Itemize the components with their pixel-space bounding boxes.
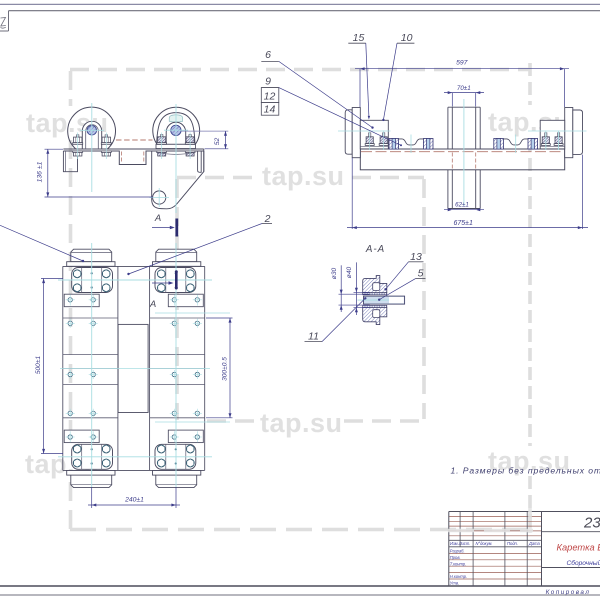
dimension 52 xyxy=(181,130,228,132)
leader into left cap xyxy=(0,225,83,261)
side view right flange plate xyxy=(565,108,573,158)
front view carriage plate xyxy=(63,148,203,150)
svg-text:70±1: 70±1 xyxy=(457,85,471,92)
dimension 675±1 xyxy=(351,158,353,229)
watermark overlay dashes over title block xyxy=(448,508,533,533)
wheel W2 yoke tower xyxy=(166,122,186,144)
svg-text:597: 597 xyxy=(456,60,468,67)
svg-text:A: A xyxy=(149,299,156,310)
wheel W2 pedestal xyxy=(156,144,196,148)
wheel W2 bolts xyxy=(161,135,163,137)
plan view mid plate bolts xyxy=(68,321,72,325)
dimension 500±1 xyxy=(41,278,63,280)
svg-text:N°докум.: N°докум. xyxy=(476,541,493,546)
svg-text:Сборочный ч: Сборочный ч xyxy=(567,559,600,567)
svg-text:Изм.Лист.: Изм.Лист. xyxy=(450,541,470,546)
dimension 136±1 xyxy=(45,148,64,150)
side view left axle end xyxy=(345,110,352,154)
svg-text:Пров.: Пров. xyxy=(450,555,461,560)
section pin xyxy=(364,296,405,304)
section notches white xyxy=(373,283,380,291)
svg-text:ø30: ø30 xyxy=(331,267,338,279)
svg-text:240±1: 240±1 xyxy=(124,497,144,504)
section washer strips xyxy=(363,293,387,295)
dimension 70±1 xyxy=(451,93,453,107)
sheet frame top lines xyxy=(0,3,600,5)
svg-text:500±1: 500±1 xyxy=(35,356,42,375)
front view centerlines cyan xyxy=(91,103,93,192)
wheel W1 bolts xyxy=(77,135,79,137)
svg-text:Т.контр.: Т.контр. xyxy=(450,561,467,566)
side view left flange plate xyxy=(352,108,360,158)
svg-text:14: 14 xyxy=(264,104,276,116)
watermark dashed frame inner xyxy=(177,178,424,422)
svg-text:Дата: Дата xyxy=(528,541,541,546)
front view rail hidden line red xyxy=(116,139,153,141)
svg-text:5: 5 xyxy=(418,268,424,280)
side view left bracket with bolts xyxy=(360,120,388,149)
plan view center connector plate xyxy=(118,324,148,412)
svg-text:9: 9 xyxy=(265,76,271,88)
svg-text:Разраб.: Разраб. xyxy=(450,549,465,554)
wheel W1 front-left circle xyxy=(68,107,116,149)
wheel W2 face plate xyxy=(157,113,195,149)
svg-text:Утв.: Утв. xyxy=(450,581,459,586)
front view left flange bracket xyxy=(63,151,77,172)
front view right end and flange xyxy=(203,149,205,172)
watermark dashed frame outer xyxy=(70,63,533,533)
svg-text:11: 11 xyxy=(308,331,319,343)
side view wheel left pair section xyxy=(389,139,399,150)
svg-text:23.05.01: 23.05.01 xyxy=(583,515,600,532)
wheel W1 axle xyxy=(87,126,97,136)
svg-text:Копировал: Копировал xyxy=(546,589,591,596)
plan view hex bolts and small bolts xyxy=(73,270,81,278)
wheel W2 front-right circle xyxy=(153,107,200,149)
dimension 300±0.5 xyxy=(206,317,233,319)
dimension ø40 xyxy=(354,291,370,293)
dimension 597 xyxy=(359,69,361,107)
svg-text:52: 52 xyxy=(214,138,221,146)
svg-text:300±0.5: 300±0.5 xyxy=(221,357,228,381)
svg-text:15: 15 xyxy=(353,32,365,44)
svg-text:A-A: A-A xyxy=(365,244,385,255)
wheel W1 yoke xyxy=(82,121,101,149)
svg-text:Н.контр.: Н.контр. xyxy=(450,574,467,579)
plan view rails xyxy=(62,266,64,470)
side view wheel right pair section xyxy=(494,139,504,150)
dimension 62±1 xyxy=(444,209,484,211)
svg-text:136 ±1: 136 ±1 xyxy=(36,161,43,182)
wheel W2 axle xyxy=(171,125,181,135)
side view center ear plate xyxy=(448,106,480,108)
side view centerlines cyan xyxy=(463,99,465,206)
title block grid xyxy=(449,515,542,517)
svg-text:A: A xyxy=(154,213,161,224)
side view beam xyxy=(360,149,564,170)
front view bracket hole xyxy=(153,191,166,204)
side view right bracket with bolts xyxy=(540,120,565,149)
svg-text:675±1: 675±1 xyxy=(453,220,473,227)
dimension 240±1 xyxy=(91,487,93,508)
svg-text:Подп.: Подп. xyxy=(507,541,518,546)
plan view mid plates edges xyxy=(63,317,118,319)
svg-text:12: 12 xyxy=(264,90,276,102)
svg-text:tap.su: tap.su xyxy=(260,408,343,438)
svg-text:1. Размеры без предельных откл: 1. Размеры без предельных откл xyxy=(451,466,600,476)
svg-text:6: 6 xyxy=(265,49,271,61)
svg-text:10: 10 xyxy=(401,32,413,44)
plan view centerlines cyan xyxy=(58,279,212,281)
watermark text tap.su instances xyxy=(25,107,571,479)
sheet frame bottom lines xyxy=(0,585,600,587)
plan view wheel assembly group definition xyxy=(64,249,115,307)
dimension ø30 xyxy=(339,293,370,295)
section pin centerline xyxy=(358,299,390,301)
svg-text:13: 13 xyxy=(410,251,422,263)
side view right axle end xyxy=(573,110,583,154)
wheel W2 notch xyxy=(169,115,183,122)
svg-text:Каретка В: Каретка В xyxy=(557,543,600,553)
format zone box with mark xyxy=(8,11,10,31)
svg-text:ø40: ø40 xyxy=(346,266,353,278)
section trace in plan bold xyxy=(175,272,178,288)
front view lower bracket xyxy=(152,151,204,209)
svg-text:62±1: 62±1 xyxy=(455,202,469,209)
svg-text:tap.su: tap.su xyxy=(262,161,345,191)
side view ear hidden edges red xyxy=(451,153,453,169)
side view rail hidden line red xyxy=(361,151,564,153)
section body hatched bracket xyxy=(363,276,387,293)
